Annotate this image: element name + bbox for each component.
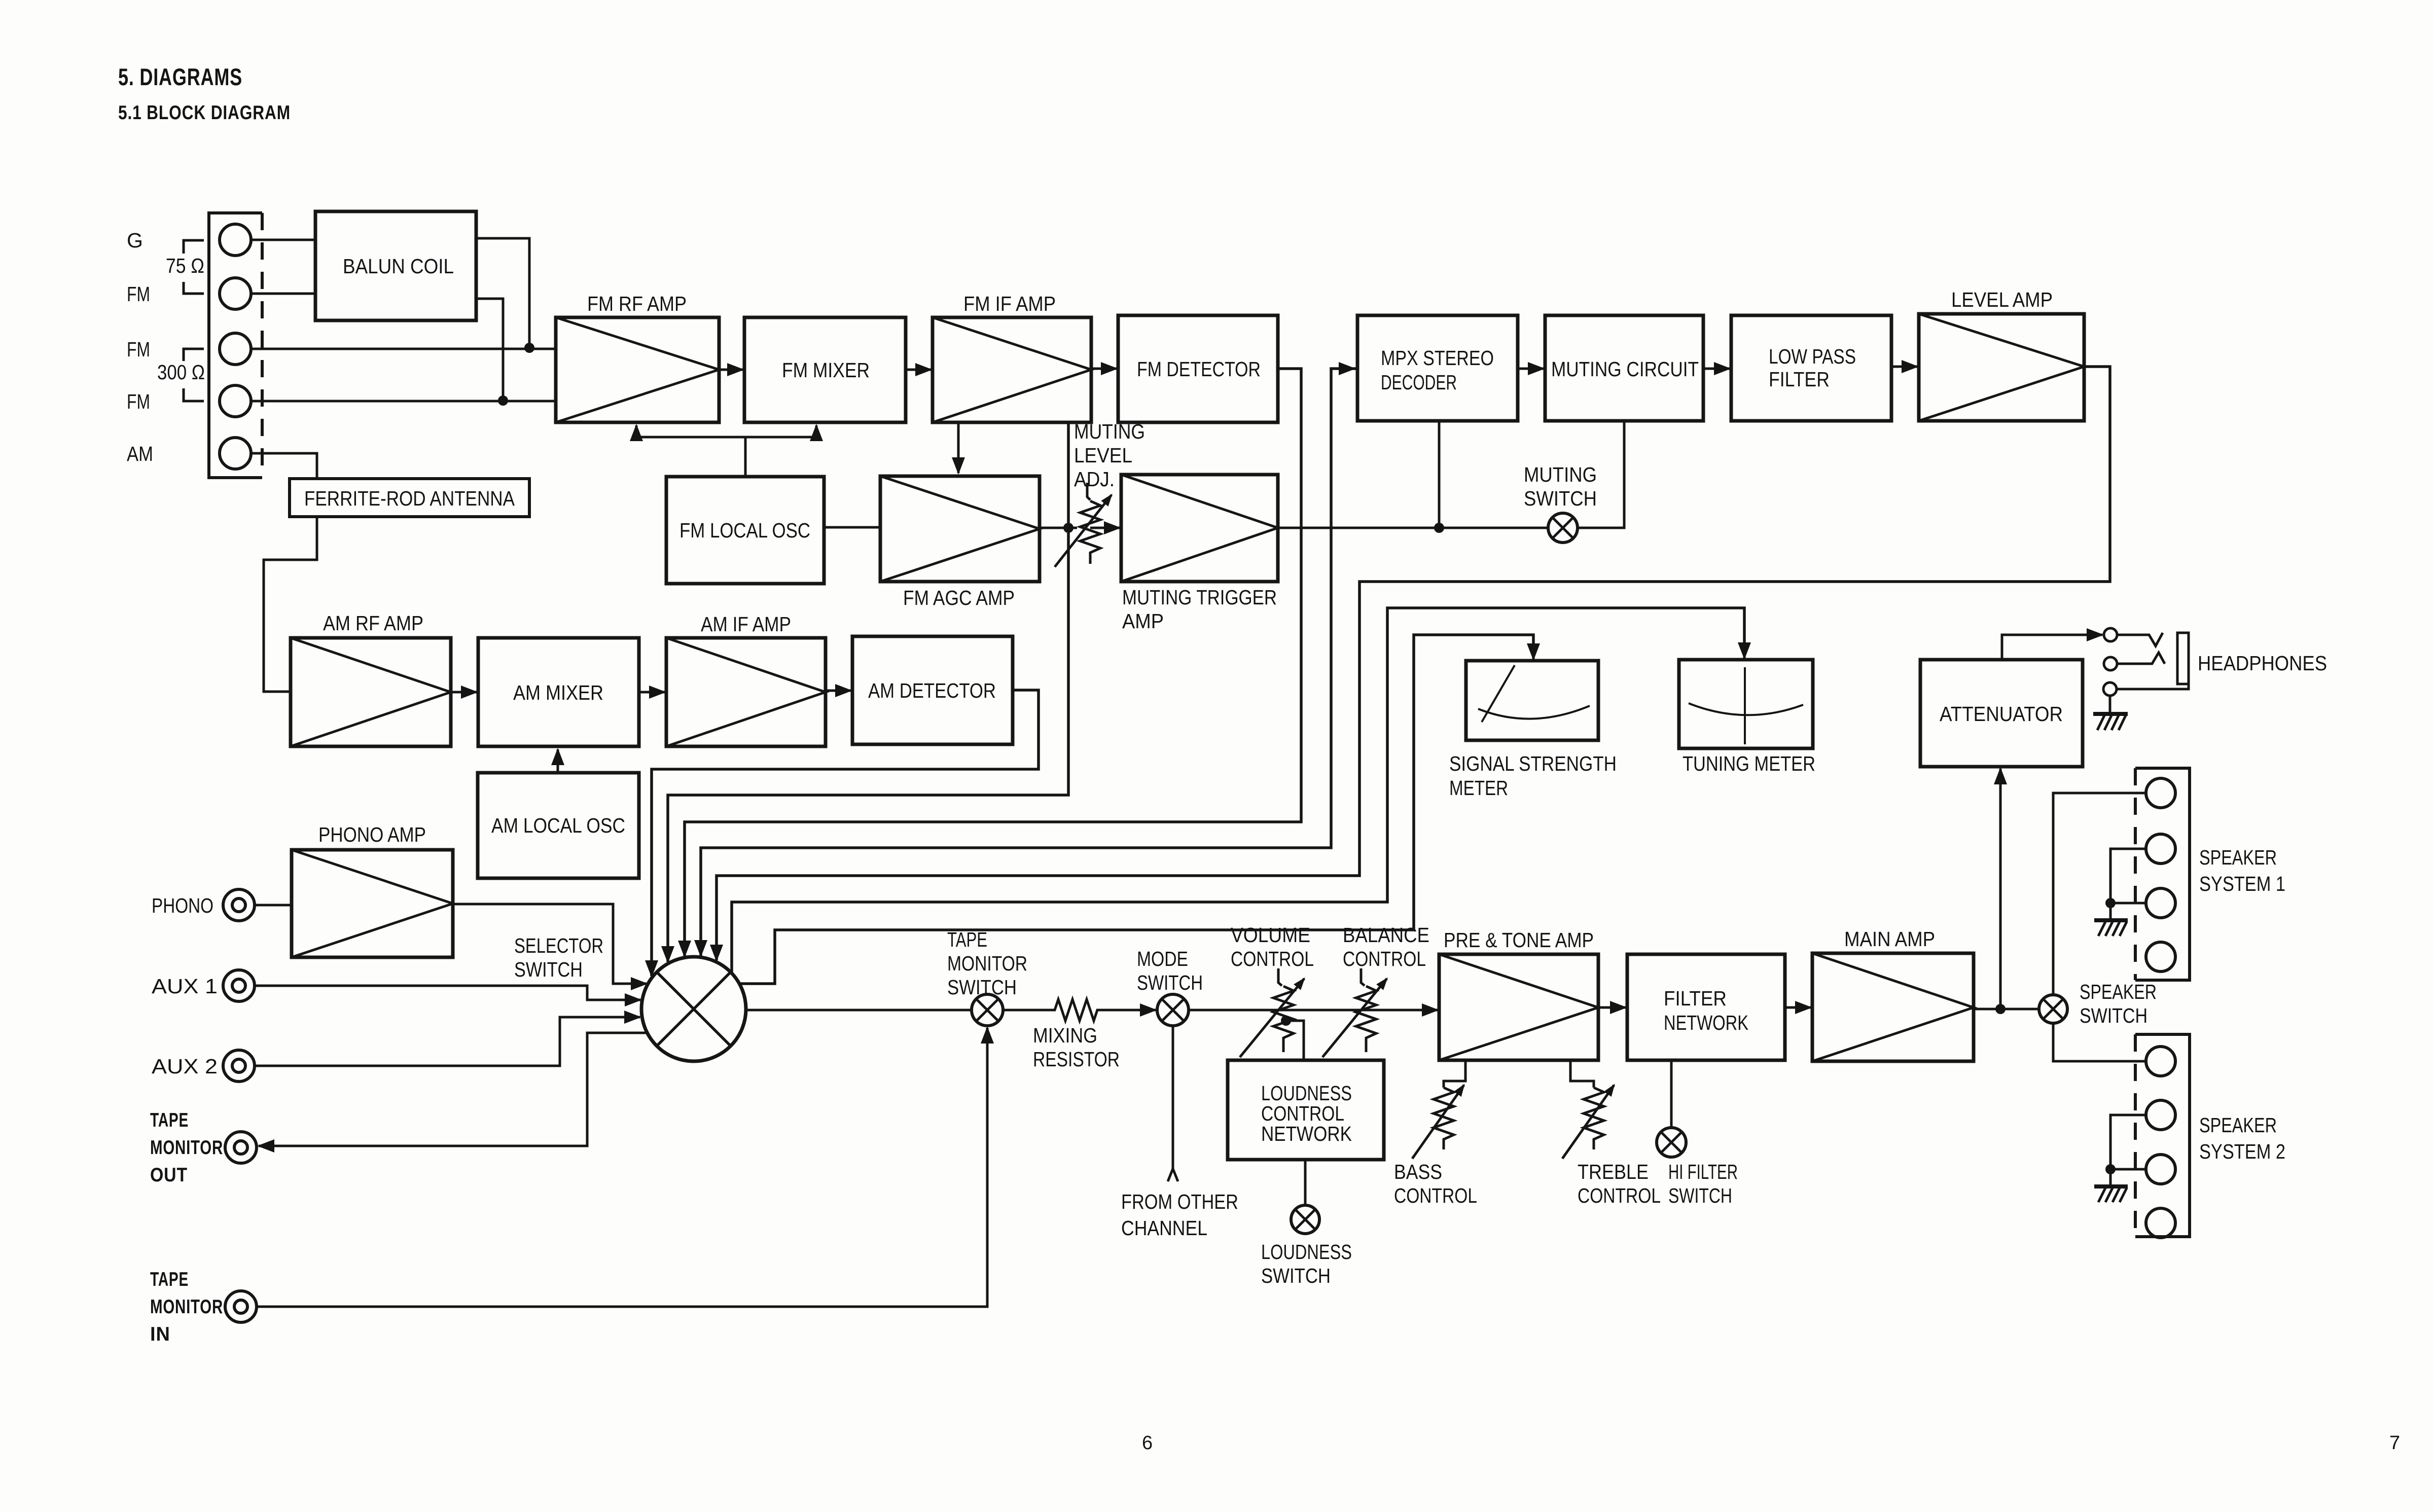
svg-text:AUX 1: AUX 1: [152, 975, 218, 998]
box BALUN COIL: [315, 211, 476, 320]
svg-text:BASS: BASS: [1394, 1160, 1442, 1183]
svg-text:AUX 2: AUX 2: [152, 1055, 218, 1078]
label TREBLE CONTROL: [1578, 1160, 1661, 1207]
box LOUDNESS CONTROL NETWORK: [1228, 1060, 1384, 1160]
wire AM local osc to AM mixer: [557, 749, 559, 773]
svg-text:SWITCH: SWITCH: [1137, 971, 1203, 994]
junction AGC line bus2: [1063, 523, 1073, 533]
wire bus4 selector to MPX decoder: [701, 369, 1356, 956]
svg-text:AM MIXER: AM MIXER: [513, 681, 603, 704]
op-amp FM IF AMP: [933, 317, 1091, 422]
speaker1 terminal 2: [2146, 834, 2175, 863]
op-amp PHONO AMP: [292, 850, 453, 957]
svg-text:AM DETECTOR: AM DETECTOR: [868, 679, 996, 702]
junction balun upper: [524, 343, 534, 353]
op-amp MUTING TRIGGER AMP: [1121, 475, 1278, 582]
svg-text:FM: FM: [127, 338, 150, 361]
svg-text:FILTER: FILTER: [1664, 987, 1727, 1010]
potentiometer BASS CONTROL: [1412, 1085, 1464, 1159]
label LOUDNESS SWITCH: [1261, 1240, 1352, 1287]
svg-text:SWITCH: SWITCH: [1668, 1184, 1732, 1207]
label VOLUME CONTROL: [1231, 923, 1314, 970]
svg-text:7: 7: [2389, 1432, 2400, 1454]
label MUTING LEVEL ADJ: [1074, 420, 1145, 491]
op-amp MAIN AMP: [1812, 953, 1974, 1061]
svg-text:PHONO: PHONO: [152, 894, 213, 917]
box AM DETECTOR: [852, 636, 1013, 744]
svg-text:6: 6: [1142, 1432, 1153, 1454]
terminal FM 300a: [220, 333, 251, 365]
connector TAPE MONITOR IN: [225, 1291, 257, 1322]
speaker strip 1: [2135, 768, 2190, 980]
junction speaker2 ground: [2105, 1164, 2116, 1174]
wire phono amp to selector: [453, 904, 647, 984]
arrowhead bus4 into MPX: [1339, 368, 1354, 370]
svg-text:SWITCH: SWITCH: [2080, 1004, 2147, 1027]
wire AM RF to AM mixer: [451, 691, 477, 694]
svg-text:BALUN COIL: BALUN COIL: [343, 255, 454, 278]
label BALANCE CONTROL: [1343, 923, 1429, 970]
svg-text:FM AGC AMP: FM AGC AMP: [903, 586, 1015, 609]
speaker2 terminal 4: [2146, 1208, 2175, 1238]
wire balun out upper: [476, 238, 529, 348]
switch HI FILTER SWITCH: [1657, 1128, 1686, 1157]
svg-text:SWITCH: SWITCH: [1261, 1264, 1331, 1287]
label SPEAKER SYSTEM 2: [2199, 1113, 2285, 1163]
svg-text:PRE & TONE AMP: PRE & TONE AMP: [1444, 928, 1594, 952]
connector AUX 1: [223, 970, 255, 1001]
wire volume tap to loudness network: [1286, 1021, 1304, 1060]
bracket 75 ohm: [184, 240, 204, 294]
svg-text:FM MIXER: FM MIXER: [782, 358, 870, 382]
svg-text:SWITCH: SWITCH: [1524, 487, 1597, 510]
wire speaker1 ground link: [2110, 849, 2146, 903]
svg-text:MONITOR: MONITOR: [150, 1296, 223, 1318]
svg-text:SPEAKER: SPEAKER: [2199, 846, 2277, 869]
label MUTING SWITCH: [1524, 463, 1597, 510]
wire aux2 to selector: [255, 1017, 640, 1066]
box FILTER NETWORK: [1627, 954, 1785, 1060]
connector PHONO: [223, 889, 255, 921]
svg-text:CONTROL: CONTROL: [1343, 947, 1426, 970]
op-amp FM RF AMP: [556, 317, 719, 422]
label SPEAKER SWITCH: [2080, 980, 2157, 1027]
svg-text:5. DIAGRAMS: 5. DIAGRAMS: [118, 63, 242, 90]
op-amp AM IF AMP: [666, 638, 826, 746]
connector AUX 2: [223, 1050, 255, 1082]
box FERRITE-ROD ANTENNA: [290, 479, 529, 517]
svg-text:BALANCE: BALANCE: [1343, 923, 1429, 947]
svg-text:NETWORK: NETWORK: [1261, 1122, 1352, 1145]
potentiometer VOLUME CONTROL: [1240, 968, 1304, 1057]
wire AM IF to AM detector: [826, 690, 851, 692]
svg-text:MUTING: MUTING: [1524, 463, 1597, 486]
svg-text:AM IF AMP: AM IF AMP: [701, 613, 791, 636]
ground headphone: [2093, 696, 2128, 730]
wire losc branch left arrow: [636, 425, 745, 437]
wire muting switch up to muting circuit: [1578, 421, 1624, 528]
switch TAPE MONITOR SWITCH: [972, 994, 1003, 1026]
terminal FM 75ohm: [220, 278, 251, 309]
svg-text:75 Ω: 75 Ω: [166, 254, 204, 277]
svg-text:OUT: OUT: [150, 1164, 188, 1186]
wire speaker2 ground link: [2110, 1115, 2146, 1169]
wire IF amp to detector: [1091, 368, 1117, 370]
headphone contact 1: [2104, 628, 2117, 641]
wire bus5 level amp to selector: [717, 367, 2110, 960]
wire FM antenna upper to RF amp: [251, 348, 556, 350]
wire bus2 FM IF amp to selector: [668, 422, 1068, 962]
svg-text:SELECTOR: SELECTOR: [514, 934, 603, 957]
wire muting trigger to muting switch: [1278, 527, 1548, 529]
svg-text:CONTROL: CONTROL: [1578, 1184, 1661, 1207]
svg-text:ATTENUATOR: ATTENUATOR: [1940, 702, 2063, 726]
potentiometer BALANCE CONTROL: [1322, 968, 1387, 1057]
svg-text:MPX STEREO: MPX STEREO: [1381, 346, 1494, 370]
label SIGNAL STRENGTH METER: [1449, 752, 1617, 800]
box LOW PASS FILTER: [1731, 315, 1891, 421]
svg-text:FILTER: FILTER: [1769, 368, 1830, 391]
terminal G: [220, 224, 251, 256]
svg-text:MIXING: MIXING: [1033, 1024, 1097, 1047]
wire treble stub: [1570, 1060, 1594, 1088]
wire IF amp down to AGC: [957, 422, 960, 473]
svg-text:HEADPHONES: HEADPHONES: [2198, 652, 2327, 675]
wire mixer to IF amp: [906, 369, 931, 371]
wire bus7 signal meter line to selector: [740, 635, 1533, 984]
wire filter network to hi filter switch: [1670, 1060, 1673, 1128]
label MIXING RESISTOR: [1033, 1024, 1120, 1071]
connector TAPE MONITOR OUT: [225, 1132, 257, 1163]
wire bus1 AM detector to selector: [652, 690, 1039, 976]
label MUTING TRIGGER AMP: [1122, 586, 1277, 633]
svg-text:HI FILTER: HI FILTER: [1668, 1160, 1738, 1183]
antenna terminal strip: [209, 213, 262, 478]
headphone contact 2: [2104, 657, 2117, 670]
svg-text:LOW PASS: LOW PASS: [1769, 345, 1856, 368]
potentiometer MUTING LEVEL ADJ: [1055, 483, 1112, 567]
headphone contact 3: [2103, 682, 2117, 696]
terminal FM 300b: [220, 385, 251, 417]
speaker1 terminal 1: [2146, 778, 2175, 808]
box AM LOCAL OSC: [478, 773, 639, 878]
label MODE SWITCH: [1137, 947, 1203, 994]
junction speaker1 ground: [2105, 898, 2116, 908]
speaker2 terminal 1: [2146, 1047, 2175, 1076]
svg-text:FERRITE-ROD ANTENNA: FERRITE-ROD ANTENNA: [304, 487, 515, 510]
label TAPE MONITOR IN: [150, 1269, 223, 1345]
wire AGC to muting pot: [1040, 527, 1077, 529]
headphone jack bar: [2177, 633, 2189, 684]
wire selector to tape monitor out: [259, 1033, 647, 1146]
wire speaker switch to system2: [2053, 1023, 2146, 1061]
wire bus6 tuning meter line to selector: [732, 608, 1744, 974]
svg-text:FM IF AMP: FM IF AMP: [963, 292, 1056, 315]
wire AM mixer to AM IF amp: [639, 691, 665, 694]
junction balun lower: [498, 395, 508, 406]
wire mixing resistor to mode switch: [1101, 1009, 1156, 1012]
wire main amp to speaker switch: [1974, 1008, 2039, 1011]
svg-text:AM LOCAL OSC: AM LOCAL OSC: [491, 814, 625, 837]
wire mode switch to pre tone amp: [1189, 1009, 1438, 1012]
wire MPX to muting circuit: [1518, 368, 1544, 370]
wire losc to AGC: [824, 526, 880, 529]
junction main amp out: [1995, 1004, 2006, 1014]
box MPX STEREO DECODER: [1357, 315, 1518, 421]
box FM MIXER: [744, 317, 906, 422]
bracket 300 ohm: [184, 349, 204, 401]
wire bus3 FM detector to selector: [685, 369, 1301, 956]
wire FM75 to balun: [251, 293, 315, 295]
svg-text:TUNING METER: TUNING METER: [1683, 752, 1815, 775]
svg-text:MUTING CIRCUIT: MUTING CIRCUIT: [1551, 357, 1699, 381]
svg-text:FROM OTHER: FROM OTHER: [1121, 1190, 1238, 1213]
wire tape switch to mixing resistor: [1003, 1009, 1051, 1012]
speaker1 terminal 3: [2146, 888, 2175, 918]
svg-text:METER: METER: [1449, 776, 1508, 800]
speaker strip 2: [2135, 1034, 2190, 1237]
op-amp FM AGC AMP: [880, 476, 1040, 582]
box AM MIXER: [478, 638, 639, 746]
label TAPE MONITOR SWITCH: [947, 928, 1027, 999]
svg-text:TAPE: TAPE: [947, 928, 987, 951]
arrowhead bus6 into tuning meter: [1743, 634, 1746, 658]
wire speaker switch to system1: [2053, 793, 2146, 995]
op-amp PRE & TONE AMP: [1439, 954, 1598, 1060]
wire tape monitor in to tape switch: [257, 1028, 987, 1307]
wire selector output: [746, 1009, 972, 1012]
headphone switch V lever 1: [2118, 633, 2163, 646]
box FM DETECTOR: [1118, 315, 1278, 422]
label TAPE MONITOR OUT: [150, 1109, 223, 1186]
svg-text:TAPE: TAPE: [150, 1269, 189, 1290]
svg-text:SYSTEM 1: SYSTEM 1: [2199, 872, 2285, 895]
box MUTING CIRCUIT: [1545, 315, 1703, 421]
svg-text:LEVEL AMP: LEVEL AMP: [1951, 288, 2053, 311]
speaker2 terminal 3: [2146, 1155, 2175, 1184]
fork from other channel: [1168, 1169, 1178, 1181]
svg-text:MAIN AMP: MAIN AMP: [1844, 927, 1935, 951]
wire attenuator to headphone contact: [2002, 635, 2102, 660]
switch MODE SWITCH: [1157, 994, 1189, 1026]
junction volume tap: [1281, 1016, 1291, 1026]
svg-text:CONTROL: CONTROL: [1231, 947, 1314, 970]
svg-text:5.1 BLOCK DIAGRAM: 5.1 BLOCK DIAGRAM: [118, 102, 291, 124]
label BASS CONTROL: [1394, 1160, 1477, 1207]
wire main amp to attenuator: [1999, 769, 2002, 1009]
label SPEAKER SYSTEM 1: [2199, 846, 2285, 895]
ground speaker2: [2094, 1169, 2128, 1202]
svg-text:VOLUME: VOLUME: [1231, 923, 1310, 947]
terminal AM: [220, 438, 251, 469]
wire pre tone amp to filter network: [1598, 1006, 1626, 1009]
svg-text:SWITCH: SWITCH: [514, 958, 583, 981]
wire FM antenna lower to RF amp: [251, 400, 556, 403]
meter TUNING METER: [1679, 660, 1813, 748]
wire LPF to level amp: [1891, 366, 1917, 368]
svg-text:LEVEL: LEVEL: [1074, 444, 1132, 467]
op-amp AM RF AMP: [291, 638, 451, 746]
wire phono to phono amp: [255, 904, 292, 907]
box FM LOCAL OSC: [666, 477, 824, 584]
svg-text:MODE: MODE: [1137, 947, 1188, 970]
svg-text:AM: AM: [127, 442, 153, 465]
svg-text:IN: IN: [150, 1323, 170, 1345]
svg-text:SWITCH: SWITCH: [947, 976, 1017, 999]
switch MUTING SWITCH: [1548, 513, 1578, 543]
resistor MIXING RESISTOR: [1051, 999, 1101, 1021]
box ATTENUATOR: [1920, 660, 2083, 767]
switch LOUDNESS SWITCH: [1291, 1205, 1319, 1234]
svg-text:NETWORK: NETWORK: [1664, 1011, 1748, 1034]
svg-text:RESISTOR: RESISTOR: [1033, 1048, 1120, 1071]
svg-text:FM: FM: [127, 282, 150, 306]
wire muting circuit to LPF: [1703, 368, 1730, 370]
svg-text:CONTROL: CONTROL: [1394, 1184, 1477, 1207]
label HI FILTER SWITCH: [1668, 1160, 1738, 1207]
wire loudness network to loudness switch: [1304, 1160, 1307, 1205]
wire filter network to main amp: [1785, 1006, 1811, 1009]
switch SPEAKER SWITCH: [2039, 995, 2067, 1023]
wire mode switch from other channel: [1172, 1026, 1174, 1171]
wire AM terminal to ferrite antenna: [251, 453, 317, 479]
svg-text:FM: FM: [127, 390, 150, 413]
svg-text:LOUDNESS: LOUDNESS: [1261, 1240, 1352, 1264]
meter SIGNAL STRENGTH METER: [1466, 661, 1598, 740]
headphone switch lever 2: [2118, 653, 2165, 664]
label SELECTOR SWITCH: [514, 934, 603, 981]
svg-text:SPEAKER: SPEAKER: [2080, 980, 2157, 1003]
svg-text:FM RF AMP: FM RF AMP: [587, 292, 687, 315]
wire MPX bottom drop: [1438, 421, 1441, 528]
wire local osc to RF amp and mixer: [744, 437, 747, 477]
svg-text:AM RF AMP: AM RF AMP: [323, 611, 423, 635]
headphone jack sleeve wire: [2117, 684, 2189, 689]
wire ferrite to AM RF amp: [264, 517, 317, 692]
arrowhead bus7 into signal meter: [1532, 635, 1535, 659]
wire pot to muting trigger amp: [1090, 527, 1120, 529]
svg-text:CHANNEL: CHANNEL: [1121, 1216, 1207, 1240]
junction MPX bottom: [1434, 523, 1444, 533]
wire losc branch right arrow: [745, 425, 816, 437]
wire bass stub: [1444, 1060, 1465, 1088]
svg-text:MONITOR: MONITOR: [150, 1137, 223, 1159]
wire aux1 to selector: [255, 986, 640, 1000]
svg-text:TAPE: TAPE: [150, 1109, 189, 1131]
op-amp LEVEL AMP: [1919, 314, 2084, 421]
svg-text:ADJ.: ADJ.: [1074, 467, 1115, 491]
svg-text:SPEAKER: SPEAKER: [2199, 1113, 2277, 1137]
svg-text:DECODER: DECODER: [1381, 371, 1457, 394]
svg-text:300 Ω: 300 Ω: [157, 361, 205, 384]
wire balun out lower: [476, 299, 503, 401]
ground speaker1: [2094, 903, 2128, 936]
potentiometer TREBLE CONTROL: [1562, 1085, 1614, 1159]
svg-text:FM DETECTOR: FM DETECTOR: [1137, 357, 1261, 381]
speaker2 terminal 2: [2146, 1100, 2175, 1130]
svg-text:FM LOCAL OSC: FM LOCAL OSC: [679, 519, 810, 542]
label FROM OTHER CHANNEL: [1121, 1190, 1238, 1240]
switch SELECTOR SWITCH: [641, 957, 746, 1061]
speaker1 terminal 4: [2146, 942, 2175, 971]
wire G to balun: [251, 239, 315, 241]
svg-text:AMP: AMP: [1122, 609, 1164, 633]
svg-text:TREBLE: TREBLE: [1578, 1160, 1649, 1183]
svg-text:MONITOR: MONITOR: [947, 952, 1027, 975]
svg-text:PHONO AMP: PHONO AMP: [318, 823, 426, 846]
svg-text:G: G: [127, 229, 143, 252]
svg-text:SYSTEM 2: SYSTEM 2: [2199, 1140, 2285, 1163]
svg-text:SIGNAL STRENGTH: SIGNAL STRENGTH: [1449, 752, 1617, 775]
svg-text:MUTING: MUTING: [1074, 420, 1145, 443]
svg-text:MUTING TRIGGER: MUTING TRIGGER: [1122, 586, 1277, 609]
wire RF amp to mixer: [719, 369, 743, 371]
